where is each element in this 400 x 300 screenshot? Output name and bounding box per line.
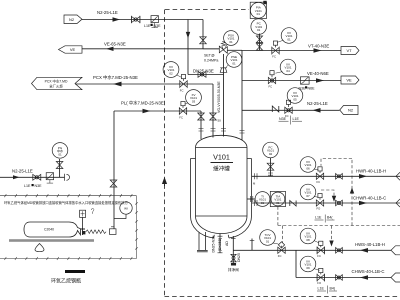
boundary arrow up on left boundary bbox=[164, 178, 166, 186]
svg-text:08: 08 bbox=[306, 238, 310, 242]
svg-text:N3E: N3E bbox=[154, 24, 162, 28]
node flag N2 right bbox=[340, 106, 358, 115]
wire arrow CHWS left-flow bbox=[360, 275, 368, 280]
ARROWS bbox=[13, 17, 368, 280]
node flag VE left bbox=[59, 46, 83, 53]
wire signal down to XV08 area bbox=[331, 226, 333, 245]
battery limit boundary dashed bbox=[165, 10, 400, 297]
fence ticks bottom bbox=[4, 257, 132, 260]
valve gate vertical PC02 stub bbox=[267, 163, 274, 170]
wire VT line to flag bbox=[242, 50, 341, 52]
instrument bubble texts bbox=[57, 6, 312, 270]
signal arrow up interlock bbox=[350, 188, 354, 194]
CYLINDER AREA bbox=[9, 209, 116, 273]
wire CHWR jacket return line bbox=[252, 202, 400, 204]
vessel V101 shell bbox=[196, 148, 248, 217]
svg-text:N2-25-L1E: N2-25-L1E bbox=[97, 10, 118, 15]
wire N2 hose line bottom left bbox=[0, 176, 65, 178]
valve ball N2 bottom-left bbox=[33, 174, 41, 180]
svg-text:N6E: N6E bbox=[308, 86, 316, 90]
svg-text:VG-VY0005-50-N3E: VG-VY0005-50-N3E bbox=[217, 81, 221, 113]
instrument WI weighing bbox=[120, 202, 132, 214]
valve gate pair CHWR right bbox=[336, 200, 343, 206]
svg-text:01: 01 bbox=[232, 62, 236, 66]
pigtail hook bbox=[91, 209, 94, 214]
svg-text:09: 09 bbox=[306, 266, 310, 270]
svg-text:N2-25-L1E: N2-25-L1E bbox=[12, 168, 33, 173]
tank C2040 valve bits bbox=[81, 228, 86, 235]
fence bottom line bbox=[0, 258, 137, 260]
fence top line bbox=[0, 195, 137, 197]
valve control XV07 on CHWR bbox=[316, 200, 323, 206]
svg-text:CHWR-40-L1B-C: CHWR-40-L1B-C bbox=[353, 196, 386, 201]
svg-text:N3E: N3E bbox=[299, 86, 307, 90]
wire PG stub bbox=[59, 159, 61, 177]
svg-text:N3E: N3E bbox=[35, 184, 43, 188]
valve gate pair HWS right bbox=[336, 248, 343, 254]
flame arrestor bottom-left bbox=[46, 173, 53, 180]
valve control XV01 on VT line bbox=[272, 47, 279, 53]
wire VE-65 vent line bbox=[82, 48, 219, 50]
vessel nozzle flange PL bbox=[199, 129, 204, 132]
cylinder neck riser bbox=[82, 218, 84, 229]
fence right line bbox=[136, 196, 138, 259]
wire PL drop to vessel bbox=[200, 111, 202, 139]
valve control XV09 on CHWS bbox=[317, 274, 324, 280]
wire vessel bottom drain bbox=[219, 234, 221, 254]
instrument XV V101 09 bbox=[300, 256, 316, 272]
instrument TI V101 01 bbox=[255, 192, 270, 207]
svg-text:N2-25-L1E: N2-25-L1E bbox=[307, 101, 328, 106]
valve gate vertical PG stub bbox=[56, 162, 63, 169]
svg-text:FC: FC bbox=[278, 254, 282, 258]
svg-text:01: 01 bbox=[261, 201, 265, 205]
node flag VE right bbox=[341, 76, 359, 84]
svg-text:L1E: L1E bbox=[144, 24, 151, 28]
svg-text:01: 01 bbox=[257, 28, 261, 32]
small chinese notes bbox=[44, 228, 239, 272]
valve control XV08 on HWS bbox=[317, 247, 324, 253]
wire PL riser from cylinder bbox=[113, 111, 115, 229]
wire VE-40 line to flag bbox=[242, 80, 341, 82]
wire arrow CHWR right-flow bbox=[359, 201, 367, 206]
wire signal to XV06 bbox=[321, 159, 352, 166]
wire instrument stack drop bbox=[259, 34, 261, 51]
svg-text:L1E: L1E bbox=[318, 287, 325, 291]
relief valve PSV with spring bbox=[203, 48, 219, 50]
wire PL liquid line bbox=[114, 110, 201, 112]
banner text bbox=[45, 78, 68, 88]
wire signal up riser bbox=[351, 159, 353, 226]
instrument PSE V101 01 bbox=[226, 52, 242, 68]
check valve on N2 right line bbox=[272, 106, 279, 112]
valve gate pair instrument stack bbox=[256, 36, 262, 43]
wire PSV drop to vessel bbox=[223, 54, 225, 137]
svg-text:01: 01 bbox=[229, 40, 233, 44]
wire arrow VT right-flow bbox=[314, 48, 322, 53]
wire TI stub bbox=[247, 198, 255, 200]
instrument XV V101 03 bbox=[186, 90, 202, 106]
svg-text:VE-40-N6E: VE-40-N6E bbox=[307, 71, 329, 76]
node flag HWR edge fragment bbox=[396, 172, 400, 180]
valve gate vertical on cylinder riser bbox=[110, 180, 117, 187]
wire arrow HWR right-flow bbox=[359, 174, 367, 179]
svg-text:HWR-40-L1B-H: HWR-40-L1B-H bbox=[356, 169, 386, 174]
instrument XV V101 01 bbox=[281, 28, 297, 44]
vessel nozzle flange PCX bbox=[211, 129, 216, 132]
jacket nozzle flange CHWR bbox=[255, 200, 258, 206]
wire arrow VE-65 left-flow bbox=[106, 47, 114, 51]
svg-text:FC: FC bbox=[179, 116, 183, 120]
wire signal XV07 corner bbox=[321, 190, 334, 200]
svg-text:VT-40-N3E: VT-40-N3E bbox=[308, 43, 329, 48]
svg-text:DN25: DN25 bbox=[237, 253, 241, 262]
wire arrow N2 top right-flow bbox=[113, 17, 121, 21]
vessel jacket bbox=[191, 159, 252, 217]
wire jacket inlet stub bbox=[232, 236, 234, 250]
svg-text:环氧乙烷气体经MD软管排放口连接软管气体排放中水入口软管连接: 环氧乙烷气体经MD软管排放口连接软管气体排放中水入口软管连接处按规定操作执行 bbox=[4, 200, 129, 205]
wire arrow PL right-flow bbox=[143, 109, 151, 114]
svg-text:WI: WI bbox=[124, 207, 128, 211]
svg-text:FC: FC bbox=[317, 254, 321, 258]
svg-text:06: 06 bbox=[306, 167, 310, 171]
wire HWS supply line bbox=[233, 249, 391, 251]
node N2 drop at x203 bbox=[202, 20, 204, 49]
wire N2 top line bbox=[82, 19, 203, 21]
instrument PG gauge bbox=[52, 143, 68, 159]
svg-text:L1E: L1E bbox=[293, 117, 300, 121]
svg-text:01: 01 bbox=[287, 38, 291, 42]
wire HWR jacket return line bbox=[252, 175, 400, 177]
svg-text:01: 01 bbox=[276, 201, 280, 205]
vessel leg bbox=[199, 232, 206, 250]
jacket stub flange ticks bbox=[231, 239, 254, 241]
valve ball vertical jacket drain bbox=[231, 254, 236, 261]
svg-text:C2040: C2040 bbox=[44, 228, 54, 232]
wire N2-25 right line bbox=[242, 109, 340, 111]
instrument PSV V101 01 bbox=[224, 31, 239, 46]
black cylinder label bar bbox=[65, 270, 85, 273]
svg-text:B4(: B4( bbox=[330, 287, 336, 291]
svg-text:02: 02 bbox=[269, 152, 273, 156]
svg-text:FC: FC bbox=[285, 114, 289, 118]
svg-text:V101: V101 bbox=[213, 153, 230, 162]
valve gate vertical on x203 bbox=[200, 37, 207, 44]
svg-text:L1E: L1E bbox=[24, 184, 31, 188]
signal dashed lines bbox=[278, 159, 400, 245]
svg-text:B4(: B4( bbox=[327, 216, 333, 220]
INSTRUMENTS bbox=[52, 1, 319, 272]
valve gate pair CHWS right bbox=[336, 275, 343, 281]
VESSEL bbox=[191, 135, 252, 252]
svg-text:CHWS-40-L1B-C: CHWS-40-L1B-C bbox=[352, 269, 385, 274]
cylinder gauge fitting bbox=[80, 210, 86, 217]
valve control XV06 on HWR bbox=[316, 173, 323, 179]
svg-text:DN25-N3E: DN25-N3E bbox=[211, 235, 215, 253]
tiny labels FC FO bbox=[179, 54, 321, 285]
wire jacket stub drain with valve bbox=[232, 250, 234, 263]
wire PCX drop to vessel bbox=[212, 84, 214, 138]
FENCE bbox=[0, 194, 138, 260]
svg-text:[DX05D]: [DX05D] bbox=[218, 238, 222, 251]
instrument XV V101 04 bbox=[280, 59, 296, 75]
svg-text:FO: FO bbox=[317, 207, 321, 211]
svg-text:03: 03 bbox=[192, 100, 196, 104]
svg-text:04: 04 bbox=[286, 69, 290, 73]
valve gate vertical PL drop bbox=[198, 113, 205, 120]
svg-text:01: 01 bbox=[257, 12, 261, 16]
wire CHWS to HWS riser bbox=[295, 250, 297, 277]
instrument XV V101 02 bbox=[163, 62, 179, 78]
wire arrow N2 right left-flow bbox=[313, 108, 321, 113]
tank C2040 body bbox=[24, 222, 81, 237]
svg-text:FC: FC bbox=[269, 84, 273, 88]
jacket nozzle flange HWR bbox=[255, 173, 258, 179]
wire arrow HWS left-flow bbox=[360, 248, 368, 253]
svg-text:PCX 中水7.MD: PCX 中水7.MD bbox=[45, 78, 68, 83]
rotated pipe tags bbox=[211, 81, 241, 262]
valve gate vertical PCX drop bbox=[210, 113, 217, 120]
signal arrow down XV08 bbox=[329, 241, 333, 247]
rupture disc PSE holder bbox=[220, 68, 227, 73]
wire arrow N2 bottom-left right-flow bbox=[13, 175, 20, 179]
instrument XV V101 05 bbox=[287, 88, 303, 104]
platform scale bar bbox=[9, 239, 94, 242]
svg-text:VE: VE bbox=[70, 47, 76, 52]
valve ball on DN25 purge stub bbox=[198, 72, 206, 78]
instrument TIA V101 01 shared-display bbox=[270, 191, 285, 206]
instrument XV V101 06 bbox=[300, 157, 316, 173]
node N2 drop at x188 bbox=[187, 20, 189, 75]
wire vessel vapor riser bbox=[241, 51, 243, 141]
fence ticks right bbox=[135, 202, 138, 249]
node flag HWS right edge bbox=[391, 246, 400, 255]
svg-text:PCX 中水7.MD-25-N3E: PCX 中水7.MD-25-N3E bbox=[93, 74, 138, 81]
svg-text:01: 01 bbox=[266, 240, 270, 244]
valve control TCV on HWS bbox=[278, 247, 285, 253]
signal arrow down XV07 bbox=[332, 196, 336, 202]
svg-text:DN25-N3E: DN25-N3E bbox=[193, 69, 214, 74]
svg-text:0.24MPa: 0.24MPa bbox=[204, 58, 218, 62]
svg-text:AD: AD bbox=[225, 241, 229, 246]
vessel nozzle flange riser bbox=[240, 131, 245, 134]
node flag CHWR edge fragment bbox=[396, 199, 400, 207]
svg-text:全厂火炬: 全厂火炬 bbox=[49, 84, 63, 89]
svg-text:排净阀: 排净阀 bbox=[228, 267, 239, 272]
valve ball N2 entry top bbox=[132, 17, 140, 23]
node flag VT right bbox=[341, 47, 359, 55]
svg-text:FC: FC bbox=[317, 180, 321, 184]
svg-text:FC: FC bbox=[272, 54, 276, 58]
svg-text:07: 07 bbox=[306, 194, 310, 198]
TI nozzle flange bbox=[251, 196, 253, 202]
node flag PCX to flare banner bbox=[32, 77, 83, 89]
instrument XV V101 07 bbox=[300, 184, 316, 200]
svg-text:02: 02 bbox=[169, 72, 173, 76]
instrument PC V101 02 bbox=[263, 142, 279, 158]
wire PC02 stub bbox=[270, 158, 272, 176]
svg-text:VT: VT bbox=[346, 48, 352, 53]
flexible hose coil bbox=[86, 230, 106, 234]
node flag N2 top-left bbox=[64, 15, 82, 24]
valve gate pair HWR right bbox=[336, 174, 343, 180]
vessel nozzle flange VG bbox=[221, 129, 226, 132]
wire DN25 N2 purge stub bbox=[188, 74, 224, 76]
svg-text:HWS-40-L1B-H: HWS-40-L1B-H bbox=[355, 242, 385, 247]
instrument XV V101 08 bbox=[300, 228, 316, 244]
reducer on VE-40 line bbox=[301, 77, 310, 84]
svg-text:FO: FO bbox=[317, 281, 321, 285]
wire signal to TCV bbox=[282, 226, 284, 243]
svg-text:N2: N2 bbox=[348, 108, 354, 113]
wire PCX vent line bbox=[75, 83, 213, 85]
svg-text:SET@: SET@ bbox=[204, 54, 215, 58]
hose end fitting bbox=[110, 229, 117, 235]
wire arrow VE-40 right-flow bbox=[316, 78, 324, 83]
svg-text:05: 05 bbox=[293, 98, 297, 102]
drain flange ticks bbox=[218, 236, 223, 253]
instrument TCV V101 01 bbox=[260, 230, 276, 246]
node flag CHWS right edge bbox=[391, 273, 400, 282]
wire CHWS supply line bbox=[296, 277, 391, 279]
hose coupling end bbox=[65, 174, 70, 181]
scale pedestal bbox=[35, 244, 44, 252]
svg-text:01: 01 bbox=[58, 152, 62, 156]
valve control XV04 on VE-40 line bbox=[268, 77, 275, 83]
flag texts bbox=[69, 17, 354, 113]
svg-text:50: 50 bbox=[218, 119, 222, 123]
fence ticks top bbox=[4, 194, 132, 197]
wire signal TIA down bbox=[277, 207, 279, 226]
vessel label V101 bbox=[211, 153, 234, 173]
wire arrow PCX left-flow bbox=[113, 82, 122, 87]
valve control XV02 on PCX line bbox=[180, 81, 187, 87]
svg-text:PL( 中水7.MD-25-N3E: PL( 中水7.MD-25-N3E bbox=[121, 100, 164, 107]
svg-text:L1E: L1E bbox=[315, 216, 322, 220]
valve control XV03 on PL line bbox=[179, 108, 186, 114]
instrument PC V101 01 bbox=[251, 19, 267, 35]
valve control XV05 on N2 right line bbox=[285, 107, 292, 113]
svg-text:VE-65-N3E: VE-65-N3E bbox=[104, 41, 126, 46]
svg-text:环氧乙烷钢瓶: 环氧乙烷钢瓶 bbox=[51, 277, 81, 284]
svg-text:FC: FC bbox=[180, 89, 184, 93]
check valve on CHWR bbox=[290, 201, 296, 207]
svg-text:VE: VE bbox=[346, 78, 352, 83]
flame arrestor N2 entry bbox=[151, 16, 158, 23]
instrument PIA V101 01 shared-display bbox=[250, 2, 266, 18]
wire signal main horizontal bbox=[278, 225, 400, 227]
svg-text:缓冲罐: 缓冲罐 bbox=[213, 165, 230, 173]
wire jacket drain stub bbox=[251, 239, 253, 251]
svg-text:N2: N2 bbox=[69, 17, 75, 22]
